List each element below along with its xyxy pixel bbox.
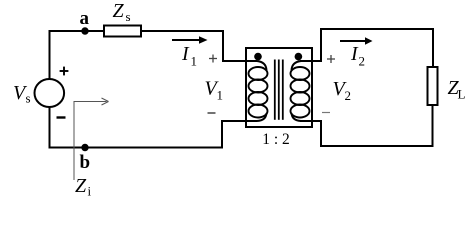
svg-text:a: a xyxy=(80,8,90,29)
svg-text:1: 1 xyxy=(191,54,198,69)
svg-text:I: I xyxy=(181,43,190,65)
svg-text:Z: Z xyxy=(113,0,125,22)
svg-text:1: 1 xyxy=(217,88,224,103)
svg-text:Z: Z xyxy=(75,175,87,197)
svg-text:i: i xyxy=(88,184,92,199)
svg-text:2: 2 xyxy=(345,88,352,103)
svg-text:2: 2 xyxy=(359,54,366,69)
svg-text:s: s xyxy=(126,9,131,24)
svg-text:s: s xyxy=(26,91,31,106)
svg-text:L: L xyxy=(458,87,466,102)
svg-text:b: b xyxy=(80,152,91,173)
svg-text:1 : 2: 1 : 2 xyxy=(262,131,290,148)
